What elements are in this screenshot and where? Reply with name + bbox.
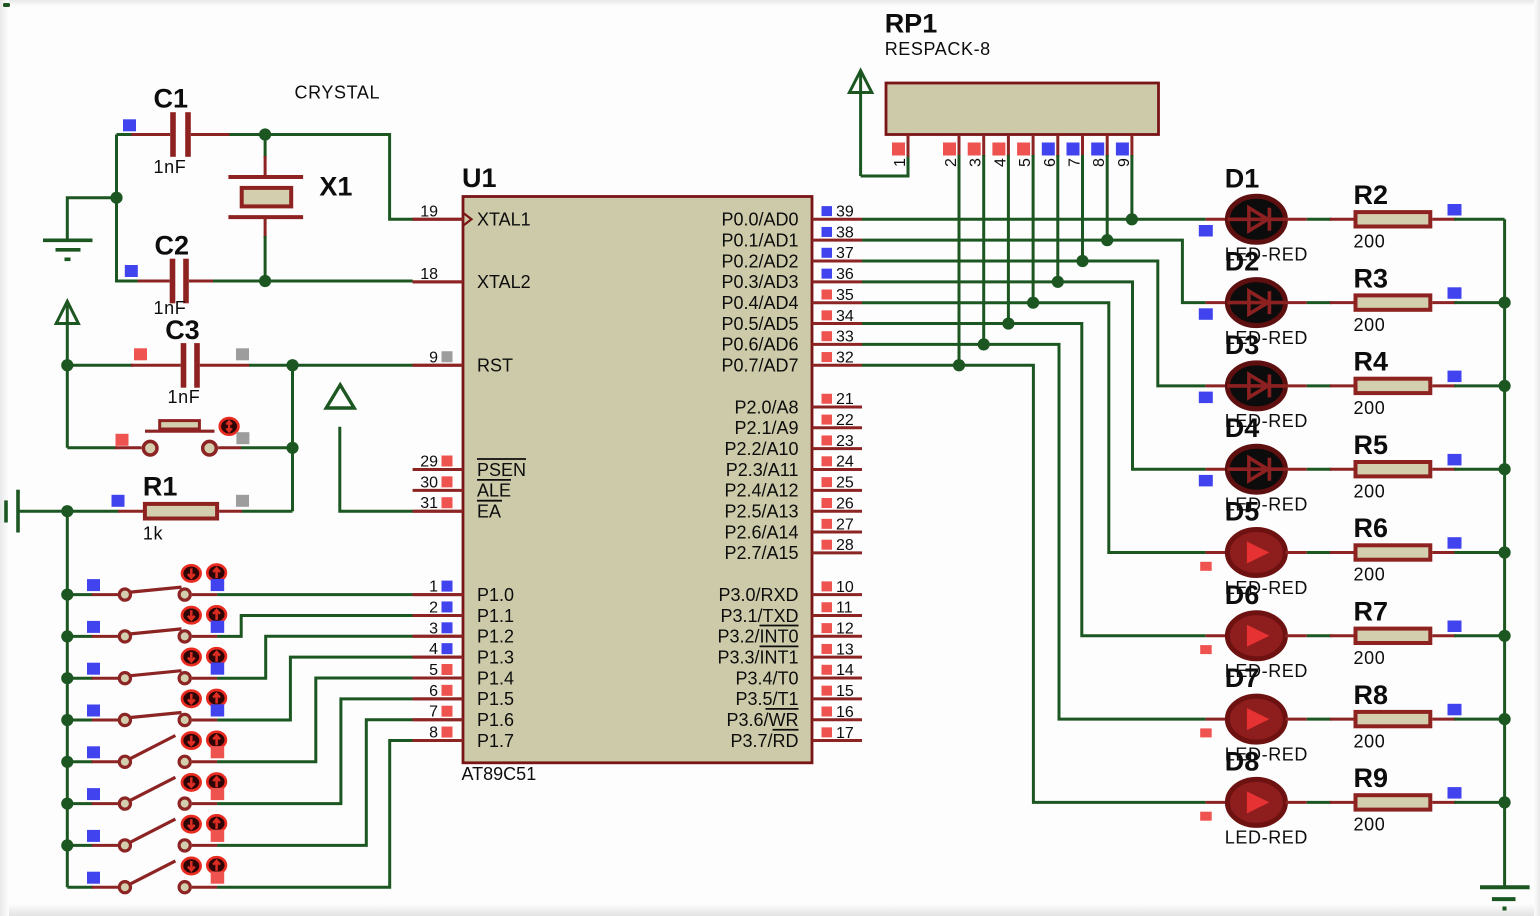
node bus R4: [1499, 380, 1511, 392]
marker square R4: [1448, 371, 1462, 383]
svg-text:25: 25: [836, 475, 854, 492]
svg-text:R9: R9: [1354, 763, 1389, 793]
switch SW5: [67, 736, 217, 768]
marker square D6: [1200, 645, 1212, 654]
marker square D8: [1200, 812, 1212, 821]
marker square pin 29: [442, 456, 453, 467]
overline ALE: [477, 479, 511, 481]
svg-text:P0.5/AD5: P0.5/AD5: [721, 314, 798, 334]
node switch bus row 6: [61, 798, 73, 810]
marker square button left: [116, 434, 129, 446]
svg-text:2: 2: [429, 599, 438, 616]
marker square SW8 state: [211, 872, 225, 884]
marker square pin 30: [442, 476, 453, 487]
resistor R6: [1330, 545, 1505, 559]
node bus R9: [1499, 796, 1511, 808]
marker square pin 32: [822, 352, 833, 362]
pin stub RP1 pin 4: [1007, 135, 1010, 157]
svg-text:D2: D2: [1225, 247, 1260, 277]
svg-text:30: 30: [420, 474, 438, 491]
pin stub U1 pin 26 (P2.5/A13): [812, 510, 862, 513]
svg-text:P3.0/RXD: P3.0/RXD: [718, 585, 798, 605]
wire RP1 pin 8 vertical: [1106, 155, 1109, 240]
marker square RP1 pin 3: [968, 143, 981, 156]
marker square pin 2: [442, 601, 453, 612]
wire P0.6 net to D7: [862, 344, 1206, 719]
marker square pin 23: [822, 435, 833, 445]
marker square C3 right: [236, 348, 249, 360]
switch SW1: [67, 587, 217, 600]
wire RP1 pin 5 vertical: [1032, 155, 1035, 303]
switch SW4 toggle icon up: [207, 690, 226, 706]
wire P0.0 net to D1: [862, 218, 1206, 221]
pin stub U1 pin 24 (P2.3/A11): [812, 468, 862, 471]
node switch bus row 5: [61, 756, 73, 768]
marker square pin 31: [442, 497, 453, 508]
wire D4 anode stub: [1206, 468, 1228, 471]
wire RP1 pin 2 vertical: [958, 155, 961, 365]
pin stub U1 pin 27 (P2.6/A14): [812, 531, 862, 534]
wire D6 cathode to R7: [1285, 634, 1306, 637]
svg-text:P2.7/A15: P2.7/A15: [724, 543, 798, 563]
wire D5 cathode to R6: [1285, 551, 1306, 554]
svg-text:200: 200: [1354, 481, 1386, 501]
node switch bus row 2: [61, 630, 73, 642]
switch SW8 toggle icon up: [207, 857, 226, 873]
wire C3 to RST pin: [293, 364, 413, 367]
svg-text:P2.5/A13: P2.5/A13: [724, 502, 798, 522]
marker square D3: [1199, 392, 1213, 404]
svg-text:5: 5: [1017, 158, 1034, 167]
marker square pin 6: [442, 685, 453, 696]
switch SW4 toggle icon down: [182, 691, 201, 707]
wire D8 cathode to R9: [1285, 801, 1306, 804]
wire SW8 to P1.7: [217, 741, 413, 888]
svg-text:P0.2/AD2: P0.2/AD2: [721, 251, 798, 271]
wire SW2 to P1.1: [217, 615, 413, 636]
node RP1 pin 3 junction: [978, 338, 990, 350]
svg-text:37: 37: [836, 245, 854, 262]
svg-text:28: 28: [836, 537, 854, 554]
svg-text:33: 33: [836, 329, 854, 346]
LED D5: [1227, 530, 1285, 576]
svg-text:P0.3/AD3: P0.3/AD3: [721, 272, 798, 292]
svg-text:R1: R1: [143, 471, 178, 501]
marker square R7: [1448, 621, 1462, 633]
canvas edge shading right: [1534, 0, 1540, 916]
svg-text:P0.4/AD4: P0.4/AD4: [721, 293, 798, 313]
marker square SW6 state: [211, 788, 225, 800]
pin stub RP1 pin 7: [1081, 135, 1084, 157]
svg-text:1: 1: [892, 158, 909, 167]
pin stub U1 pin 22 (P2.1/A9): [812, 426, 862, 429]
pin stub RP1 pin 2: [958, 135, 961, 157]
pin stub U1 pin 25 (P2.4/A12): [812, 489, 862, 492]
marker square SW4 left: [87, 705, 100, 717]
switch SW5 toggle icon down: [182, 733, 201, 749]
marker square pin 5: [442, 664, 453, 675]
wire right reset vertical: [291, 365, 294, 511]
svg-text:P2.0/A8: P2.0/A8: [734, 397, 798, 417]
pin stub U1 pin 18 (XTAL2): [413, 280, 463, 283]
overline EA: [477, 500, 502, 502]
LED D4: [1227, 446, 1285, 492]
pin stub U1 pin 39 (P0.0/AD0): [812, 218, 862, 221]
overline PSEN: [477, 458, 526, 460]
svg-text:1k: 1k: [143, 524, 164, 544]
marker square SW1 state: [211, 579, 225, 591]
marker square SW4 state: [211, 704, 225, 716]
svg-text:P2.4/A12: P2.4/A12: [724, 481, 798, 501]
switch SW2: [67, 629, 217, 642]
svg-text:200: 200: [1354, 815, 1386, 835]
svg-text:200: 200: [1354, 731, 1386, 751]
marker square R1 right: [236, 495, 249, 507]
switch SW6: [67, 777, 217, 809]
wire RP1 pin 6 vertical: [1056, 155, 1059, 282]
wire P0.1 net to D2: [862, 240, 1206, 302]
marker square pin 33: [822, 331, 833, 341]
node bus R6: [1499, 546, 1511, 558]
svg-text:C2: C2: [155, 231, 190, 261]
wire D2 cathode to R3: [1285, 301, 1306, 304]
svg-text:D3: D3: [1225, 330, 1260, 360]
wire D7 anode stub: [1206, 718, 1228, 721]
wire reset bus vertical: [66, 365, 69, 448]
wire RP1 pin 7 vertical: [1081, 155, 1084, 261]
svg-text:R3: R3: [1354, 263, 1389, 293]
svg-text:6: 6: [429, 683, 438, 700]
pin stub U1 pin 31 (EA): [413, 510, 463, 513]
wire SW7 to P1.6: [217, 720, 413, 846]
svg-text:P2.2/A10: P2.2/A10: [724, 439, 798, 459]
wire EA power to EA pin: [340, 427, 415, 511]
microcontroller U1 body: [463, 197, 812, 763]
svg-text:9: 9: [429, 349, 438, 366]
marker square RP1 pin 7: [1067, 143, 1080, 156]
origin marker dash top-left: [3, 3, 10, 7]
wire D6 anode stub: [1206, 634, 1228, 637]
svg-text:13: 13: [836, 641, 854, 658]
marker square pin 3: [442, 622, 453, 633]
pin stub U1 pin 3 (P1.2): [413, 635, 463, 638]
pin stub U1 pin 10 (P3.0/RXD): [812, 593, 862, 596]
node button right junction: [286, 442, 298, 454]
switch SW8 toggle icon down: [182, 858, 201, 874]
wire D3 cathode to R4: [1285, 384, 1306, 387]
node RP1 pin 4 junction: [1002, 317, 1014, 329]
svg-text:4: 4: [429, 641, 438, 658]
marker square pin 21: [822, 394, 833, 404]
pin stub RP1 pin 8: [1106, 135, 1109, 157]
node switch bus row 3: [61, 672, 73, 684]
switch SW6 toggle icon up: [207, 774, 226, 790]
node RP1 pin 8 junction: [1101, 234, 1113, 246]
wire SW1 to P1.0: [217, 593, 413, 596]
switch SW3: [67, 671, 217, 684]
wire SW5 to P1.4: [217, 678, 413, 762]
svg-text:AT89C51: AT89C51: [462, 764, 537, 784]
node switch bus row 4: [61, 714, 73, 726]
wire P0.5 net to D6: [862, 324, 1206, 636]
pin stub U1 pin 6 (P1.5): [413, 697, 463, 700]
switch SW3 toggle icon down: [182, 649, 201, 665]
LED D8: [1227, 779, 1285, 825]
svg-text:29: 29: [420, 454, 438, 471]
marker square RP1 pin 2: [943, 143, 956, 156]
marker square SW2 left: [87, 621, 100, 633]
switch SW2 toggle icon up: [207, 606, 226, 622]
wire P0.3 net to D4: [862, 282, 1206, 469]
pin stub U1 pin 37 (P0.2/AD2): [812, 260, 862, 263]
svg-text:R6: R6: [1354, 513, 1389, 543]
resistor R3: [1330, 295, 1505, 309]
switch SW3 toggle icon up: [207, 648, 226, 664]
marker square pin 10: [822, 581, 833, 591]
wire SW4 to P1.3: [217, 657, 413, 720]
node R1 left junction: [61, 505, 73, 517]
svg-text:P0.1/AD1: P0.1/AD1: [721, 230, 798, 250]
marker square pin 35: [822, 290, 833, 300]
svg-text:P2.6/A14: P2.6/A14: [724, 522, 798, 542]
wire D2 anode stub: [1206, 301, 1228, 304]
pin stub U1 pin 12 (P3.2/INT0): [812, 635, 862, 638]
node bus R8: [1499, 713, 1511, 725]
marker square pin 9: [442, 351, 453, 362]
node C3 right junction: [286, 359, 298, 371]
marker square SW7 state: [211, 830, 225, 842]
switch SW7: [67, 819, 217, 851]
svg-text:P1.4: P1.4: [477, 668, 514, 688]
svg-text:P3.7/RD: P3.7/RD: [730, 731, 798, 751]
resistor pack RP1 body: [886, 83, 1159, 135]
marker square D4: [1199, 475, 1213, 487]
svg-text:P2.3/A11: P2.3/A11: [726, 460, 799, 480]
marker square pin 25: [822, 477, 833, 487]
svg-text:D8: D8: [1225, 746, 1260, 776]
svg-text:7: 7: [429, 704, 438, 721]
svg-text:P1.5: P1.5: [477, 689, 514, 709]
svg-text:23: 23: [836, 433, 854, 450]
switch SW4: [67, 713, 217, 726]
svg-text:R7: R7: [1354, 597, 1389, 627]
switch SW1 toggle icon up: [207, 565, 226, 581]
marker square R6: [1448, 537, 1462, 549]
svg-text:P0.0/AD0: P0.0/AD0: [721, 210, 798, 230]
svg-text:9: 9: [1116, 158, 1133, 167]
svg-text:P1.3: P1.3: [477, 647, 514, 667]
svg-text:P3.2/INT0: P3.2/INT0: [717, 627, 798, 647]
marker square RP1 pin 8: [1091, 143, 1104, 156]
switch SW7 toggle icon down: [182, 816, 201, 832]
marker square pin 15: [822, 686, 833, 696]
wire D5 anode stub: [1206, 551, 1228, 554]
pin stub U1 pin 36 (P0.3/AD3): [812, 280, 862, 283]
overline INT1: [760, 645, 799, 647]
marker square pin 36: [822, 269, 833, 279]
svg-text:32: 32: [836, 349, 854, 366]
switch SW2 toggle icon down: [182, 607, 201, 623]
svg-text:200: 200: [1354, 398, 1386, 418]
svg-text:U1: U1: [462, 163, 497, 193]
svg-text:P3.1/TXD: P3.1/TXD: [720, 606, 798, 626]
wire ground to R1 junction: [18, 510, 67, 513]
ground symbol bottom-right: [1480, 887, 1530, 908]
svg-text:7: 7: [1067, 158, 1084, 167]
pin stub U1 pin 30 (ALE): [413, 489, 463, 492]
pin stub U1 pin 34 (P0.5/AD5): [812, 322, 862, 325]
marker square R1 left: [112, 495, 125, 507]
svg-text:P1.6: P1.6: [477, 710, 514, 730]
marker square pin 11: [822, 602, 833, 612]
wire P0.2 net to D3: [862, 261, 1206, 386]
svg-text:LED-RED: LED-RED: [1225, 828, 1308, 848]
svg-text:C1: C1: [154, 84, 189, 114]
svg-text:31: 31: [420, 495, 438, 512]
marker square SW3 left: [87, 663, 100, 675]
wire D3 anode stub: [1206, 384, 1228, 387]
svg-text:16: 16: [836, 704, 854, 721]
wire C1 junction to XTAL1 pin: [265, 135, 414, 220]
crystal X1: [228, 135, 303, 282]
marker square R3: [1448, 287, 1462, 299]
marker square RP1 pin 9: [1116, 143, 1129, 156]
svg-text:RP1: RP1: [885, 9, 938, 39]
svg-text:P0.6/AD6: P0.6/AD6: [721, 335, 798, 355]
node RP1 pin 2 junction: [953, 359, 965, 371]
power symbol arrow (reset): [56, 301, 78, 365]
wire RP1 pin 9 vertical: [1130, 155, 1133, 219]
resistor R9: [1330, 795, 1505, 809]
wire D1 cathode to R2: [1285, 218, 1306, 221]
svg-text:R8: R8: [1354, 680, 1389, 710]
canvas edge shading bottom: [0, 904, 1540, 916]
svg-text:26: 26: [836, 495, 854, 512]
pin stub U1 pin 11 (P3.1/TXD): [812, 614, 862, 617]
svg-text:22: 22: [836, 412, 854, 429]
svg-text:P1.7: P1.7: [477, 731, 514, 751]
marker square SW5 left: [87, 746, 100, 758]
svg-text:1nF: 1nF: [168, 387, 201, 407]
marker square SW8 left: [87, 872, 100, 884]
svg-text:D1: D1: [1225, 163, 1260, 193]
svg-text:P3.3/INT1: P3.3/INT1: [717, 647, 798, 667]
svg-text:8: 8: [1091, 158, 1108, 167]
svg-text:35: 35: [836, 287, 854, 304]
capacitor C3: [67, 343, 292, 388]
node ground tap junction: [110, 192, 122, 204]
node C2/X1 junction: [259, 275, 271, 287]
marker square RP1 pin 4: [992, 143, 1005, 156]
marker square pin 1: [442, 581, 453, 592]
wire D4 cathode to R5: [1285, 468, 1306, 471]
ground symbol top-left: [43, 240, 93, 259]
svg-text:D7: D7: [1225, 663, 1260, 693]
wire ground branch: [67, 198, 116, 241]
marker square pin 8: [442, 727, 453, 738]
svg-text:P2.1/A9: P2.1/A9: [734, 418, 798, 438]
marker square SW6 left: [87, 788, 100, 800]
node switch bus row 7: [61, 839, 73, 851]
marker square R2: [1448, 204, 1462, 216]
svg-text:RST: RST: [477, 356, 513, 376]
svg-text:EA: EA: [477, 502, 501, 522]
node bus R3: [1499, 297, 1511, 309]
svg-text:PSEN: PSEN: [477, 460, 526, 480]
XTAL1 clock marker: [463, 213, 472, 226]
pin stub U1 pin 29 (PSEN): [413, 468, 463, 471]
marker square C3 left: [134, 348, 147, 360]
wire D8 anode stub: [1206, 801, 1228, 804]
switch SW5 toggle icon up: [207, 732, 226, 748]
resistor R5: [1330, 462, 1505, 476]
marker square pin 38: [822, 227, 833, 237]
svg-text:P1.2: P1.2: [477, 627, 514, 647]
pin stub U1 pin 21 (P2.0/A8): [812, 405, 862, 408]
marker square D7: [1200, 728, 1212, 737]
overline RD: [773, 729, 799, 731]
LED D1: [1227, 196, 1285, 242]
marker square C2: [125, 265, 138, 277]
wire right ground bus: [1503, 219, 1506, 887]
marker square pin 4: [442, 643, 453, 654]
switch SW7 toggle icon up: [207, 815, 226, 831]
marker square SW3 state: [211, 663, 225, 675]
switch SW6 toggle icon down: [182, 774, 201, 790]
marker square pin 12: [822, 623, 833, 633]
pin stub U1 pin 35 (P0.4/AD4): [812, 301, 862, 304]
wire SW3 to P1.2: [217, 636, 413, 678]
svg-text:38: 38: [836, 224, 854, 241]
svg-text:P0.7/AD7: P0.7/AD7: [721, 356, 798, 376]
pin stub U1 pin 19 (XTAL1): [413, 218, 463, 221]
marker square pin 13: [822, 644, 833, 654]
svg-text:200: 200: [1354, 648, 1386, 668]
marker square RP1 pin 1: [892, 143, 905, 156]
marker square R5: [1448, 454, 1462, 466]
svg-text:200: 200: [1354, 232, 1386, 252]
svg-text:1nF: 1nF: [154, 157, 187, 177]
svg-text:D6: D6: [1225, 580, 1260, 610]
power symbol triangle (EA): [326, 385, 354, 408]
pin stub U1 pin 38 (P0.1/AD1): [812, 239, 862, 242]
svg-text:XTAL2: XTAL2: [477, 272, 531, 292]
marker square SW2 state: [211, 621, 225, 633]
svg-text:10: 10: [836, 579, 854, 596]
resistor R2: [1330, 212, 1505, 226]
switch SW8: [67, 861, 217, 893]
svg-text:15: 15: [836, 683, 854, 700]
pin stub U1 pin 7 (P1.6): [413, 718, 463, 721]
svg-text:XTAL1: XTAL1: [477, 210, 531, 230]
wire D1 anode stub: [1206, 218, 1228, 221]
pin stub RP1 pin 3: [982, 135, 985, 157]
svg-text:39: 39: [836, 204, 854, 221]
LED D7: [1227, 696, 1285, 742]
pin stub U1 pin 2 (P1.1): [413, 614, 463, 617]
overline WR: [766, 708, 799, 710]
node C1/X1 junction: [259, 128, 271, 140]
pin stub U1 pin 16 (P3.6/WR): [812, 718, 862, 721]
svg-text:200: 200: [1354, 315, 1386, 335]
node RP1 pin 7 junction: [1076, 255, 1088, 267]
svg-text:P3.4/T0: P3.4/T0: [735, 668, 798, 688]
marker square C1: [123, 119, 136, 131]
pin stub U1 pin 28 (P2.7/A15): [812, 551, 862, 554]
pin stub U1 pin 14 (P3.4/T0): [812, 677, 862, 680]
svg-text:R4: R4: [1354, 347, 1389, 377]
marker square pin 26: [822, 498, 833, 508]
